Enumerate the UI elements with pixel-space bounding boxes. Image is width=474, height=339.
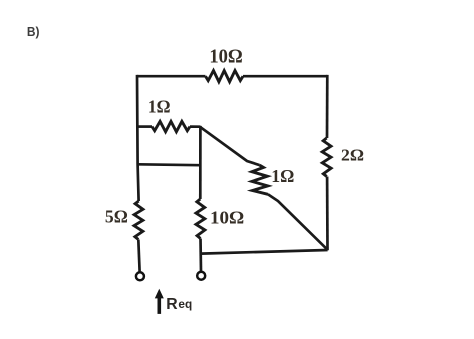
wire bottom: [201, 250, 328, 254]
svg-text:2Ω: 2Ω: [341, 146, 364, 165]
wire right lower: [326, 177, 329, 251]
wire right upper: [326, 75, 329, 138]
resistor R_left 5ohm zigzag: [134, 201, 143, 240]
svg-text:R: R: [166, 296, 178, 313]
svg-text:10Ω: 10Ω: [210, 208, 244, 228]
svg-text:1Ω: 1Ω: [148, 97, 171, 117]
wire top right segment: [243, 75, 327, 78]
terminal right: [197, 272, 205, 280]
resistor R_diag 1ohm zigzag: [252, 165, 268, 194]
wire diagonal upper lead: [201, 127, 260, 165]
wire 1ohm branch right lead: [190, 125, 201, 128]
svg-text:B): B): [27, 24, 40, 39]
wire middle upper: [199, 126, 202, 199]
resistor R_mid 10ohm zigzag: [196, 199, 205, 239]
wire middle lower: [199, 239, 202, 272]
terminal left: [136, 272, 144, 280]
svg-text:5Ω: 5Ω: [105, 206, 128, 226]
svg-text:eq: eq: [178, 297, 192, 311]
wire left upper: [137, 75, 139, 201]
wire diagonal lower lead: [268, 194, 328, 250]
wire top left segment: [137, 75, 206, 78]
wire shorting link: [138, 163, 201, 167]
svg-text:1Ω: 1Ω: [271, 166, 294, 186]
svg-text:10Ω: 10Ω: [209, 45, 242, 67]
wire 1ohm branch left lead: [137, 125, 152, 128]
resistor R_right 2ohm zigzag: [322, 138, 331, 177]
wire left lower: [138, 240, 139, 272]
resistor R1 1ohm zigzag: [152, 121, 190, 131]
resistor R_top 10ohm zigzag: [206, 71, 244, 82]
arrow Req: [158, 297, 162, 314]
